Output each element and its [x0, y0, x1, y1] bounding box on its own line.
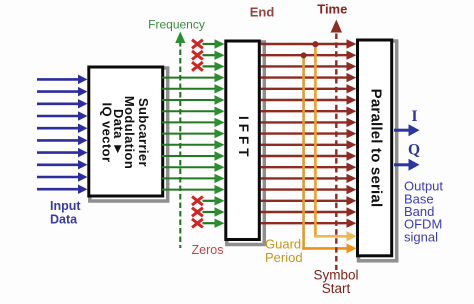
svg-text:Parallel to serial: Parallel to serial [367, 89, 384, 208]
svg-text:Start: Start [322, 281, 351, 296]
svg-text:End: End [250, 5, 275, 20]
svg-text:Zeros: Zeros [192, 243, 224, 257]
svg-text:Q: Q [408, 142, 420, 159]
svg-text:Time: Time [317, 2, 347, 17]
svg-text:Input: Input [50, 199, 81, 213]
svg-text:IFFT: IFFT [236, 116, 251, 161]
svg-text:Frequency: Frequency [148, 18, 205, 32]
svg-text:Subcarrier: Subcarrier [136, 98, 151, 167]
svg-text:IQ vector: IQ vector [100, 103, 115, 163]
svg-text:signal: signal [404, 229, 438, 244]
svg-text:I: I [411, 108, 417, 125]
svg-text:Period: Period [265, 250, 303, 265]
svg-text:Data: Data [50, 213, 78, 227]
